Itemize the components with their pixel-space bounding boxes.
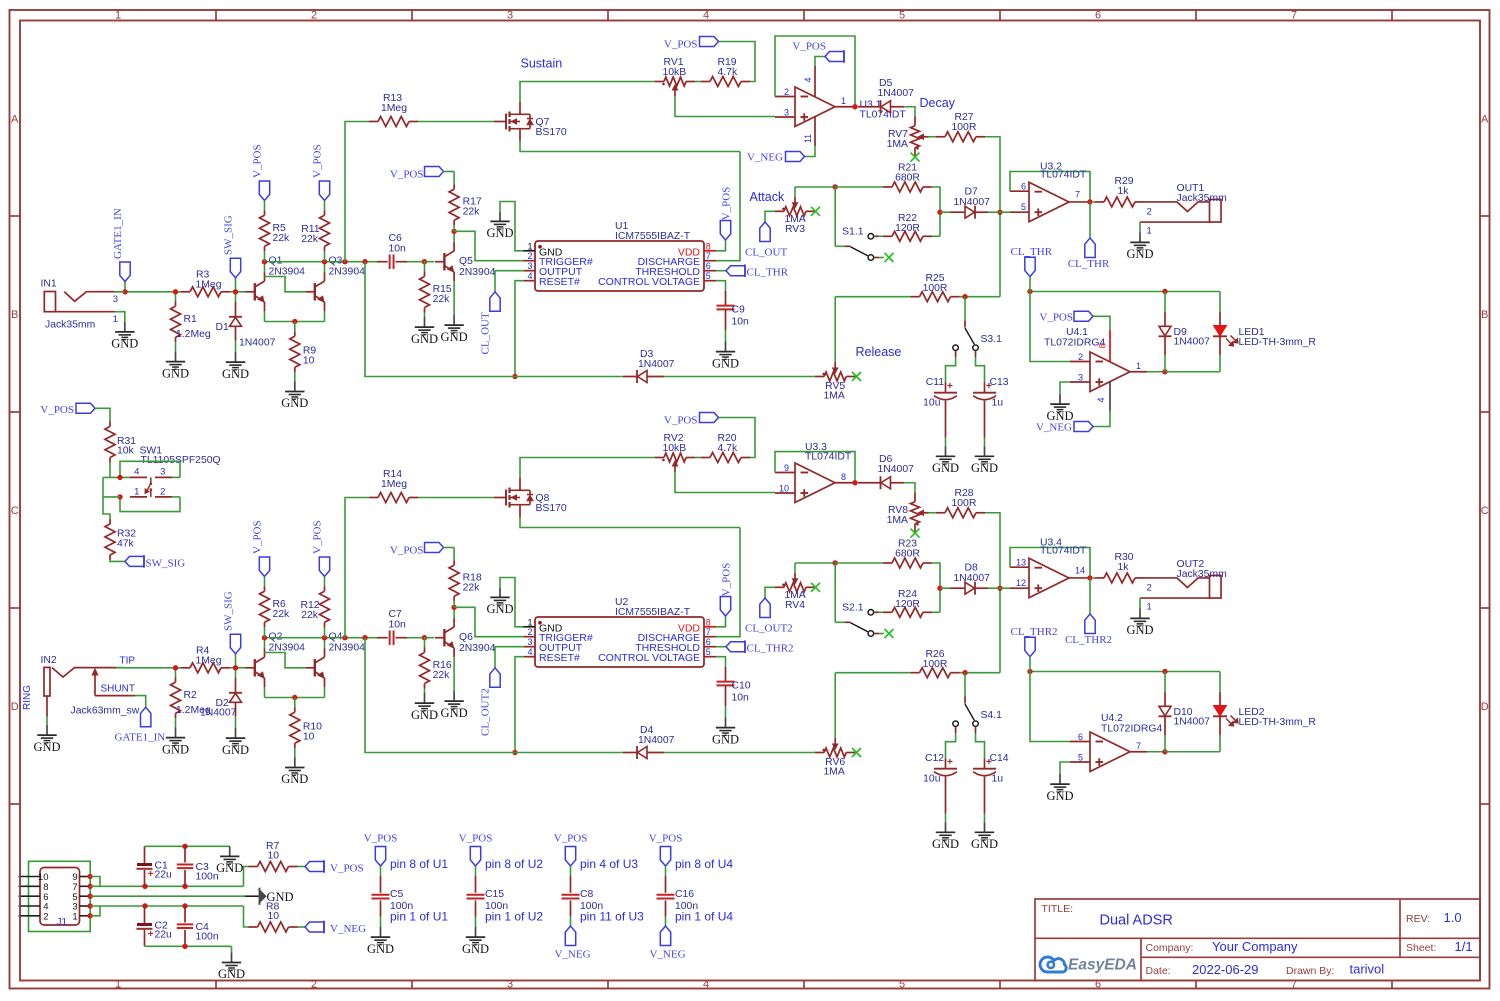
svg-text:22u: 22u [155, 870, 173, 881]
svg-text:SHUNT: SHUNT [101, 684, 135, 695]
svg-text:10n: 10n [732, 317, 750, 328]
svg-text:GND: GND [441, 330, 468, 344]
svg-text:Jack35mm: Jack35mm [1177, 569, 1227, 580]
svg-text:4: 4 [527, 271, 532, 281]
svg-text:GND: GND [218, 967, 245, 981]
svg-text:4: 4 [803, 77, 813, 82]
svg-text:CL_THR2: CL_THR2 [1011, 626, 1058, 638]
svg-text:22k: 22k [273, 609, 291, 620]
svg-text:CL_THR2: CL_THR2 [1065, 634, 1112, 646]
svg-text:C10: C10 [732, 681, 751, 692]
svg-text:2: 2 [311, 9, 317, 21]
svg-text:pin 1 of U1: pin 1 of U1 [390, 910, 448, 924]
svg-text:4: 4 [703, 9, 709, 21]
svg-text:V_NEG: V_NEG [747, 151, 783, 163]
svg-text:SW_SIG: SW_SIG [223, 215, 235, 255]
svg-text:V_NEG: V_NEG [1036, 422, 1072, 434]
svg-text:1Meg: 1Meg [196, 279, 222, 290]
svg-text:ICM7555IBAZ-T: ICM7555IBAZ-T [615, 231, 691, 242]
svg-text:1N4007: 1N4007 [200, 708, 237, 719]
svg-text:GND: GND [971, 837, 998, 851]
svg-text:D8: D8 [965, 563, 979, 574]
svg-text:Sheet:: Sheet: [1406, 942, 1436, 954]
svg-text:GND: GND [162, 366, 189, 380]
svg-text:RESET#: RESET# [539, 652, 580, 664]
svg-text:Date:: Date: [1146, 965, 1171, 977]
svg-text:V_POS: V_POS [664, 39, 698, 51]
svg-text:REV:: REV: [1406, 913, 1430, 925]
svg-text:R2: R2 [184, 690, 198, 701]
svg-text:1N4007: 1N4007 [954, 197, 991, 208]
svg-text:1k: 1k [1118, 562, 1130, 573]
svg-text:TL074IDT: TL074IDT [805, 451, 852, 462]
svg-text:3: 3 [113, 294, 118, 305]
svg-text:1N4007: 1N4007 [638, 735, 675, 746]
svg-text:3: 3 [1078, 373, 1083, 383]
svg-text:GATE1_IN: GATE1_IN [112, 208, 124, 259]
svg-text:V_POS: V_POS [390, 169, 424, 181]
svg-text:V_POS: V_POS [1039, 311, 1073, 323]
svg-text:1N4007: 1N4007 [878, 464, 915, 475]
svg-text:A: A [11, 113, 19, 125]
svg-text:4: 4 [703, 979, 709, 991]
svg-text:GND: GND [281, 772, 308, 786]
svg-text:1MA: 1MA [824, 391, 845, 402]
svg-text:V_POS: V_POS [459, 833, 493, 845]
svg-text:10n: 10n [732, 693, 750, 704]
svg-text:TITLE:: TITLE: [1042, 903, 1074, 915]
svg-text:10: 10 [303, 355, 315, 366]
svg-text:2N3904: 2N3904 [329, 267, 366, 278]
svg-text:3: 3 [507, 9, 513, 21]
svg-text:7: 7 [1291, 9, 1297, 21]
svg-text:1: 1 [115, 979, 121, 991]
svg-text:2: 2 [160, 486, 165, 497]
svg-text:V_POS: V_POS [792, 41, 826, 53]
svg-text:22k: 22k [463, 583, 481, 594]
svg-text:8: 8 [706, 241, 711, 251]
svg-text:10kB: 10kB [663, 67, 687, 78]
svg-text:D: D [1481, 701, 1489, 713]
svg-text:1: 1 [1136, 361, 1141, 371]
svg-text:3: 3 [527, 637, 532, 647]
svg-text:V_POS: V_POS [40, 404, 74, 416]
svg-text:pin 1 of U4: pin 1 of U4 [675, 910, 733, 924]
svg-text:5: 5 [1021, 202, 1026, 212]
svg-text:V_POS: V_POS [664, 415, 698, 427]
svg-text:Your Company: Your Company [1212, 939, 1298, 954]
svg-text:IN2: IN2 [41, 655, 57, 666]
svg-text:GND: GND [712, 732, 739, 746]
svg-text:D7: D7 [965, 187, 979, 198]
svg-text:CONTROL VOLTAGE: CONTROL VOLTAGE [598, 652, 700, 664]
svg-text:C8: C8 [580, 889, 594, 900]
svg-text:C13: C13 [990, 377, 1009, 388]
svg-text:RV4: RV4 [785, 600, 805, 611]
svg-text:10u: 10u [923, 774, 941, 785]
svg-text:22k: 22k [463, 207, 481, 218]
svg-text:3: 3 [160, 467, 165, 478]
svg-text:CL_OUT2: CL_OUT2 [745, 623, 793, 635]
svg-text:10kB: 10kB [663, 443, 687, 454]
svg-text:OUT2: OUT2 [1177, 559, 1205, 570]
svg-text:1: 1 [527, 241, 532, 251]
svg-text:V_NEG: V_NEG [649, 949, 685, 961]
svg-text:1: 1 [115, 9, 121, 21]
svg-text:Jack63mm_sw: Jack63mm_sw [71, 706, 140, 717]
svg-text:ICM7555IBAZ-T: ICM7555IBAZ-T [615, 607, 691, 618]
svg-text:GND: GND [216, 861, 243, 875]
svg-text:GND: GND [111, 337, 138, 351]
svg-text:GND: GND [932, 461, 959, 475]
svg-text:Release: Release [856, 345, 902, 359]
svg-text:100n: 100n [196, 932, 219, 943]
svg-text:U4.1: U4.1 [1066, 327, 1088, 338]
svg-text:V_POS: V_POS [554, 833, 588, 845]
svg-text:Drawn By:: Drawn By: [1286, 965, 1334, 977]
svg-text:47k: 47k [117, 538, 135, 549]
svg-text:Sustain: Sustain [521, 57, 563, 71]
svg-text:2: 2 [1147, 206, 1152, 217]
svg-text:1N4007: 1N4007 [239, 338, 276, 349]
svg-text:IN1: IN1 [41, 279, 57, 290]
svg-text:22k: 22k [301, 234, 319, 245]
svg-text:100R: 100R [952, 498, 977, 509]
svg-text:1MA: 1MA [824, 767, 845, 778]
svg-text:1: 1 [1147, 601, 1152, 612]
svg-text:1.2Meg: 1.2Meg [176, 329, 211, 340]
svg-text:C9: C9 [732, 305, 746, 316]
svg-text:10: 10 [303, 731, 315, 742]
svg-text:3: 3 [527, 261, 532, 271]
svg-text:1: 1 [134, 486, 139, 497]
svg-text:GND: GND [932, 837, 959, 851]
svg-text:7: 7 [1136, 741, 1141, 751]
svg-text:1u: 1u [992, 398, 1004, 409]
svg-text:V_POS: V_POS [649, 833, 683, 845]
svg-text:V_POS: V_POS [721, 563, 733, 597]
svg-text:10k: 10k [117, 446, 135, 457]
svg-text:22k: 22k [273, 233, 291, 244]
svg-text:7: 7 [1075, 189, 1080, 199]
svg-text:680R: 680R [895, 173, 920, 184]
svg-text:Jack35mm: Jack35mm [1177, 193, 1227, 204]
svg-text:CL_THR: CL_THR [1068, 258, 1110, 270]
svg-text:V_POS: V_POS [312, 520, 324, 554]
svg-text:2N3904: 2N3904 [459, 267, 496, 278]
svg-text:S2.1: S2.1 [842, 603, 864, 614]
svg-text:1N4007: 1N4007 [1174, 717, 1211, 728]
svg-text:C6: C6 [389, 233, 403, 244]
svg-text:1: 1 [1147, 225, 1152, 236]
svg-text:CL_THR2: CL_THR2 [747, 642, 794, 654]
svg-text:2: 2 [1147, 582, 1152, 593]
svg-text:V_POS: V_POS [312, 144, 324, 178]
svg-text:A: A [1481, 113, 1489, 125]
svg-text:V_POS: V_POS [330, 863, 364, 875]
svg-text:GND: GND [441, 706, 468, 720]
svg-text:GND: GND [367, 942, 394, 956]
svg-text:5: 5 [1078, 753, 1083, 763]
svg-text:1N4007: 1N4007 [1174, 337, 1211, 348]
svg-text:GND: GND [712, 356, 739, 370]
svg-text:LED-TH-3mm_R: LED-TH-3mm_R [1239, 717, 1317, 728]
svg-text:5: 5 [899, 9, 905, 21]
svg-text:100R: 100R [923, 659, 948, 670]
svg-text:C: C [11, 505, 19, 517]
svg-text:V_POS: V_POS [390, 545, 424, 557]
svg-text:1k: 1k [1118, 186, 1130, 197]
svg-text:V_NEG: V_NEG [330, 923, 366, 935]
svg-text:Dual ADSR: Dual ADSR [1100, 913, 1173, 929]
svg-text:C11: C11 [926, 377, 945, 388]
svg-text:TIP: TIP [120, 656, 136, 667]
svg-text:3: 3 [507, 979, 513, 991]
svg-text:GND: GND [971, 461, 998, 475]
svg-text:RING: RING [22, 685, 33, 710]
svg-text:D1: D1 [216, 322, 230, 333]
svg-text:1MA: 1MA [887, 139, 908, 150]
svg-text:BS170: BS170 [536, 503, 567, 514]
svg-text:OUT1: OUT1 [1177, 183, 1205, 194]
svg-text:2: 2 [527, 251, 532, 261]
svg-text:GND: GND [1046, 789, 1073, 803]
svg-text:8: 8 [1098, 343, 1108, 348]
svg-text:4: 4 [134, 467, 139, 478]
svg-text:LED-TH-3mm_R: LED-TH-3mm_R [1239, 337, 1317, 348]
svg-text:13: 13 [1016, 558, 1026, 568]
svg-text:10n: 10n [389, 244, 407, 255]
svg-text:CONTROL VOLTAGE: CONTROL VOLTAGE [598, 276, 700, 288]
svg-text:SW_SIG: SW_SIG [146, 557, 186, 569]
svg-text:CL_OUT2: CL_OUT2 [480, 688, 492, 736]
svg-text:U4.2: U4.2 [1101, 713, 1123, 724]
svg-text:10u: 10u [923, 398, 941, 409]
svg-text:BS170: BS170 [536, 127, 567, 138]
svg-text:GND: GND [411, 708, 438, 722]
svg-text:2: 2 [527, 627, 532, 637]
svg-text:S3.1: S3.1 [981, 334, 1003, 345]
svg-text:GND: GND [462, 942, 489, 956]
svg-text:10n: 10n [389, 620, 407, 631]
svg-text:EasyEDA: EasyEDA [1068, 956, 1137, 973]
svg-text:100R: 100R [923, 283, 948, 294]
svg-text:pin 4 of U3: pin 4 of U3 [580, 857, 638, 871]
svg-text:8: 8 [706, 617, 711, 627]
svg-text:10: 10 [779, 484, 789, 494]
svg-text:C14: C14 [990, 753, 1009, 764]
svg-text:pin 8 of U2: pin 8 of U2 [485, 857, 543, 871]
svg-text:1: 1 [72, 911, 77, 922]
svg-text:GATE1_IN: GATE1_IN [115, 732, 166, 744]
svg-text:5: 5 [706, 647, 711, 657]
svg-text:22k: 22k [433, 670, 451, 681]
svg-text:100n: 100n [196, 872, 219, 883]
svg-text:C12: C12 [925, 753, 944, 764]
svg-text:CL_OUT: CL_OUT [745, 247, 787, 259]
svg-text:Attack: Attack [750, 190, 785, 204]
svg-text:GND: GND [1126, 623, 1153, 637]
svg-text:+: + [148, 929, 154, 940]
svg-text:1Meg: 1Meg [196, 655, 222, 666]
svg-text:1N4007: 1N4007 [878, 88, 915, 99]
svg-text:Decay: Decay [920, 96, 956, 110]
svg-text:GND: GND [33, 740, 60, 754]
svg-text:GND: GND [162, 742, 189, 756]
svg-text:Q5: Q5 [459, 256, 473, 267]
svg-text:6: 6 [1095, 9, 1101, 21]
svg-text:TL074IDT: TL074IDT [1040, 170, 1087, 181]
svg-text:GND: GND [411, 332, 438, 346]
svg-text:TL074IDT: TL074IDT [860, 109, 907, 120]
svg-text:S1.1: S1.1 [842, 227, 864, 238]
svg-text:22k: 22k [433, 294, 451, 305]
svg-text:11: 11 [803, 134, 813, 143]
svg-text:2: 2 [784, 87, 789, 97]
svg-text:7: 7 [706, 251, 711, 261]
svg-text:C5: C5 [390, 889, 404, 900]
svg-text:1Meg: 1Meg [381, 479, 407, 490]
svg-text:5: 5 [899, 979, 905, 991]
svg-text:B: B [11, 309, 18, 321]
svg-text:2022-06-29: 2022-06-29 [1192, 962, 1259, 977]
svg-text:SW_SIG: SW_SIG [223, 591, 235, 631]
svg-text:TL072IDRG4: TL072IDRG4 [1101, 724, 1162, 735]
svg-text:4.7k: 4.7k [718, 443, 738, 454]
svg-text:2: 2 [43, 911, 48, 922]
svg-text:CL_OUT: CL_OUT [480, 312, 492, 354]
svg-text:1/1: 1/1 [1455, 939, 1473, 954]
svg-text:6: 6 [1078, 732, 1083, 742]
svg-text:680R: 680R [895, 549, 920, 560]
svg-text:D: D [11, 701, 19, 713]
svg-text:V_NEG: V_NEG [554, 949, 590, 961]
svg-text:22k: 22k [301, 610, 319, 621]
svg-text:GND: GND [222, 743, 249, 757]
svg-text:1N4007: 1N4007 [638, 359, 675, 370]
svg-text:C: C [1481, 505, 1489, 517]
svg-text:4: 4 [527, 647, 532, 657]
svg-text:8: 8 [841, 472, 846, 482]
svg-text:TL074IDT: TL074IDT [1040, 546, 1087, 557]
svg-text:CL_THR: CL_THR [747, 266, 789, 278]
svg-text:120R: 120R [895, 223, 920, 234]
svg-text:+: + [148, 869, 154, 880]
svg-text:GND: GND [486, 602, 513, 616]
svg-text:TL072IDRG4: TL072IDRG4 [1044, 338, 1105, 349]
svg-text:1: 1 [527, 617, 532, 627]
svg-text:+: + [947, 381, 953, 392]
svg-text:CL_THR: CL_THR [1011, 246, 1053, 258]
svg-text:B: B [1481, 309, 1488, 321]
svg-text:V_POS: V_POS [252, 520, 264, 554]
svg-text:R1: R1 [184, 314, 198, 325]
svg-text:C16: C16 [675, 889, 694, 900]
svg-text:Jack35mm: Jack35mm [45, 319, 95, 330]
svg-text:V_POS: V_POS [721, 187, 733, 221]
svg-text:pin 1 of U2: pin 1 of U2 [485, 910, 543, 924]
svg-text:3: 3 [784, 108, 789, 118]
svg-text:GND: GND [1126, 247, 1153, 261]
svg-text:14: 14 [1075, 565, 1085, 575]
svg-text:V_POS: V_POS [252, 144, 264, 178]
svg-text:J1: J1 [57, 917, 68, 928]
svg-text:RV3: RV3 [785, 224, 805, 235]
svg-text:6: 6 [706, 261, 711, 271]
svg-text:Q6: Q6 [459, 632, 473, 643]
svg-text:22u: 22u [155, 930, 173, 941]
svg-text:9: 9 [784, 463, 789, 473]
svg-text:1: 1 [113, 314, 118, 325]
svg-text:C15: C15 [485, 889, 504, 900]
svg-text:+: + [947, 757, 953, 768]
svg-text:7: 7 [706, 627, 711, 637]
svg-text:GND: GND [222, 367, 249, 381]
svg-text:2: 2 [311, 979, 317, 991]
svg-text:tarivol: tarivol [1350, 962, 1385, 977]
svg-text:2: 2 [1078, 352, 1083, 362]
svg-text:RESET#: RESET# [539, 276, 580, 288]
svg-text:GND: GND [486, 226, 513, 240]
svg-text:1u: 1u [992, 774, 1004, 785]
svg-text:V_POS: V_POS [364, 833, 398, 845]
svg-text:S4.1: S4.1 [981, 710, 1003, 721]
svg-text:pin 8 of U4: pin 8 of U4 [675, 857, 733, 871]
svg-text:pin 11 of U3: pin 11 of U3 [580, 910, 644, 924]
svg-text:6: 6 [1021, 182, 1026, 192]
svg-text:5: 5 [706, 271, 711, 281]
svg-text:1: 1 [841, 96, 846, 106]
svg-text:120R: 120R [895, 599, 920, 610]
svg-text:4.7k: 4.7k [718, 67, 738, 78]
svg-text:10: 10 [268, 911, 280, 922]
svg-text:10: 10 [268, 851, 280, 862]
svg-text:1.0: 1.0 [1444, 910, 1462, 925]
svg-text:1Meg: 1Meg [381, 103, 407, 114]
svg-text:Company:: Company: [1146, 942, 1194, 954]
svg-text:100R: 100R [952, 122, 977, 133]
svg-text:1MA: 1MA [887, 515, 908, 526]
svg-text:12: 12 [1016, 578, 1026, 588]
svg-text:C7: C7 [389, 609, 403, 620]
svg-text:2N3904: 2N3904 [459, 643, 496, 654]
svg-text:6: 6 [706, 637, 711, 647]
svg-text:4: 4 [1096, 397, 1106, 402]
svg-text:GND: GND [281, 396, 308, 410]
svg-text:2N3904: 2N3904 [329, 643, 366, 654]
svg-text:pin 8 of U1: pin 8 of U1 [390, 857, 448, 871]
svg-text:1N4007: 1N4007 [954, 573, 991, 584]
